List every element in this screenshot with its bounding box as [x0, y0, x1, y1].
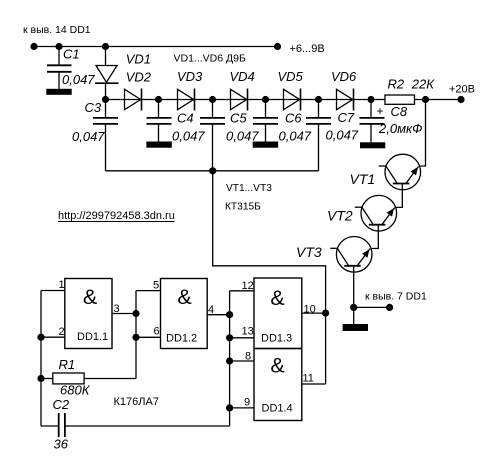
label & of DD1.1 — [83, 285, 97, 309]
transistor VT2 — [355, 195, 397, 231]
svg-text:VT2: VT2 — [327, 208, 353, 224]
pin 10 label — [304, 304, 316, 316]
ground below VT3 node — [343, 324, 368, 331]
pin 11 label — [303, 373, 314, 385]
svg-text:DD1.1: DD1.1 — [77, 331, 108, 343]
node out3/bus — [132, 310, 139, 317]
capacitor C3 — [93, 100, 118, 171]
svg-text:C6: C6 — [285, 111, 302, 126]
svg-text:0,047: 0,047 — [279, 129, 312, 144]
label VT1 — [350, 171, 376, 187]
diode VD4 — [231, 89, 248, 111]
label & of DD1.4 — [270, 354, 284, 378]
pin 2 label — [59, 326, 65, 338]
svg-text:+: + — [377, 104, 384, 118]
ground below C6 — [253, 142, 278, 148]
node C1 tap on top rail — [55, 43, 62, 50]
label C1 — [63, 47, 80, 62]
underline of link — [58, 221, 175, 223]
capacitor C5 — [200, 100, 225, 171]
svg-text:0,047: 0,047 — [72, 129, 105, 144]
svg-text:0,047: 0,047 — [62, 72, 95, 87]
svg-text:&: & — [177, 285, 191, 309]
svg-text:680К: 680К — [60, 383, 91, 398]
pin 1 label — [59, 279, 65, 291]
svg-text:КТ315Б: КТ315Б — [225, 202, 261, 213]
node junction VT3/ground — [350, 304, 357, 311]
svg-text:C4: C4 — [177, 111, 194, 126]
capacitor C1 — [47, 47, 72, 89]
pin 3 label — [114, 303, 120, 315]
wire DD1.2 output bus — [229, 291, 231, 426]
svg-text:0,047: 0,047 — [172, 129, 205, 144]
label DD1.3 — [261, 333, 292, 345]
wire diode row right of R2 — [415, 99, 462, 101]
node terminal +20В — [457, 96, 464, 103]
node pin9/bus — [226, 404, 233, 411]
svg-text:к выв. 14 DD1: к выв. 14 DD1 — [23, 24, 91, 36]
node VD1 tap on top rail — [102, 43, 109, 50]
svg-text:&: & — [270, 354, 284, 378]
value 0,047 of C5 — [226, 129, 259, 144]
wire left input bus — [40, 291, 42, 427]
label: VD1...VD6 Д9Б — [174, 53, 246, 65]
label R2 22К — [388, 77, 436, 92]
label: +6...9В — [290, 43, 325, 55]
label VD6 — [331, 69, 357, 84]
label VD1 — [126, 52, 151, 67]
label VD5 — [278, 69, 304, 84]
pin 9 label — [244, 397, 250, 409]
wire pin 2 — [41, 336, 65, 338]
svg-text:DD1.4: DD1.4 — [262, 403, 293, 415]
wire from R2 node down to VT1 emitter — [420, 100, 425, 167]
value 0,047 of C3 — [72, 129, 105, 144]
node junction VD6/R2/C8 — [367, 96, 374, 103]
diode VD5 — [284, 89, 301, 111]
node junction VD1/VD2/C3 — [102, 96, 109, 103]
svg-text:VD5: VD5 — [278, 69, 304, 84]
label & of DD1.3 — [270, 286, 284, 310]
svg-text:VT3: VT3 — [296, 244, 322, 260]
wire right bus out10 to out11 — [325, 313, 327, 384]
wire output 10 — [302, 312, 326, 314]
label R1 — [59, 357, 76, 372]
svg-text:http://299792458.3dn.ru: http://299792458.3dn.ru — [58, 210, 175, 222]
pin 13 label — [242, 326, 254, 338]
label VD3 — [177, 69, 203, 84]
transistor VT1 — [379, 154, 421, 190]
svg-text:C5: C5 — [230, 111, 247, 126]
node R1/bus — [37, 375, 44, 382]
wire output 11 — [302, 383, 326, 385]
label VT3 — [296, 244, 322, 260]
node out10 — [322, 310, 329, 317]
label C2 — [53, 397, 70, 412]
wire to pin 7 terminal — [354, 306, 390, 308]
label C3 — [85, 100, 102, 115]
label: +20В — [449, 84, 475, 96]
value 0,047 of C1 — [62, 72, 95, 87]
node terminal к выв. 7 DD1 — [386, 304, 393, 311]
svg-text:VD1: VD1 — [126, 52, 151, 67]
wire pin 9 — [230, 407, 254, 409]
wire pin 13 — [230, 337, 254, 339]
ground below C1 — [46, 89, 71, 95]
ground below C8 — [360, 142, 385, 148]
pin 12 label — [242, 280, 254, 292]
gate DD1.3 — [254, 278, 302, 349]
wire output 4 — [207, 314, 229, 316]
svg-text:VT1...VT3: VT1...VT3 — [226, 183, 272, 194]
value 0,047 of C4 — [172, 129, 205, 144]
svg-text:+6...9В: +6...9В — [290, 43, 325, 55]
label: к выв. 7 DD1 — [365, 291, 427, 303]
svg-text:&: & — [83, 285, 97, 309]
wire DD1.1 output bus — [135, 291, 137, 379]
label DD1.2 — [166, 333, 197, 345]
resistor R2 — [385, 95, 415, 104]
node junction C5 bus — [209, 167, 216, 174]
label: К176ЛА7 — [114, 396, 159, 408]
capacitor C8 (electrolytic) — [360, 100, 385, 143]
wire VT3 base lead down to output node — [353, 266, 355, 308]
value 0,047 of C6 — [279, 129, 312, 144]
node pin6/bus — [132, 334, 139, 341]
capacitor C4 — [147, 100, 172, 142]
capacitor C7 — [306, 100, 331, 171]
svg-text:VT1: VT1 — [350, 171, 376, 187]
wire node down to ground — [353, 307, 355, 324]
node out4/bus — [226, 311, 233, 318]
diode VD3 — [178, 89, 195, 111]
wire pin 8 — [230, 360, 254, 362]
node terminal +6...9В — [274, 43, 281, 50]
svg-text:VD6: VD6 — [331, 69, 357, 84]
svg-text:9: 9 — [244, 397, 250, 409]
wire VT1 base lead down to VT2 emitter — [396, 184, 402, 208]
svg-text:C3: C3 — [85, 100, 102, 115]
svg-text:22К: 22К — [411, 77, 435, 92]
svg-text:DD1.2: DD1.2 — [166, 333, 197, 345]
wire diode row left of R2 — [106, 99, 386, 101]
wire VT2 base lead down to VT3 emitter — [371, 225, 378, 249]
diode VD1 (vertical) — [95, 47, 119, 100]
node junction R2/VT1 — [422, 96, 429, 103]
svg-text:C8: C8 — [391, 104, 408, 119]
svg-text:C1: C1 — [63, 47, 80, 62]
value 36 of C2 — [54, 437, 69, 452]
label VD2 — [126, 70, 152, 85]
svg-text:C7: C7 — [338, 110, 355, 125]
capacitor C6 — [253, 100, 278, 142]
label DD1.4 — [262, 403, 293, 415]
wire top supply rail — [34, 46, 278, 48]
ground below C4 — [146, 142, 171, 148]
label & of DD1.2 — [177, 285, 191, 309]
label + C8 — [377, 104, 408, 119]
svg-text:2,0мкФ: 2,0мкФ — [378, 121, 422, 136]
capacitor C2 — [41, 413, 230, 437]
wire from bus down and right to DD1.3 output node — [213, 171, 326, 313]
node terminal left of top rail — [30, 43, 37, 50]
node junction VD3/VD4/C5 — [209, 96, 216, 103]
wire ground bus under C3/C5/C7 — [106, 170, 319, 172]
svg-text:11: 11 — [303, 373, 314, 385]
svg-text:13: 13 — [242, 326, 254, 338]
svg-text:1: 1 — [59, 279, 65, 291]
diode VD6 — [337, 89, 354, 111]
label VT2 — [327, 208, 353, 224]
node junction VD2/VD3/C4 — [155, 96, 162, 103]
value 2,0мкФ of C8 — [378, 121, 422, 136]
svg-text:C2: C2 — [53, 397, 70, 412]
wire pin 5 — [136, 290, 161, 292]
wire output 3 — [112, 313, 136, 315]
value 0,047 of C7 — [326, 128, 359, 143]
svg-text:36: 36 — [54, 437, 69, 452]
transistor VT3 — [330, 237, 372, 273]
pin 6 label — [154, 326, 160, 338]
svg-text:R2: R2 — [388, 77, 405, 92]
label VD4 — [230, 69, 255, 84]
svg-text:+20В: +20В — [449, 84, 475, 96]
gate DD1.4 — [254, 349, 302, 421]
node pin2/bus — [37, 334, 44, 341]
svg-text:5: 5 — [153, 280, 159, 292]
wire pin 1 — [41, 290, 65, 292]
wire pin 6 — [136, 336, 161, 338]
node pin8/bus — [226, 357, 233, 364]
label: к выв. 14 DD1 — [23, 24, 91, 36]
svg-text:0,047: 0,047 — [226, 129, 259, 144]
svg-text:2: 2 — [59, 326, 65, 338]
svg-text:R1: R1 — [59, 357, 76, 372]
label: http://299792458.3dn.ru — [58, 210, 175, 222]
svg-text:VD2: VD2 — [126, 70, 152, 85]
svg-text:К176ЛА7: К176ЛА7 — [114, 396, 159, 408]
label C6 — [285, 111, 302, 126]
svg-text:0,047: 0,047 — [326, 128, 359, 143]
label C5 — [230, 111, 247, 126]
svg-text:VD4: VD4 — [230, 69, 255, 84]
svg-text:VD3: VD3 — [177, 69, 203, 84]
node junction VD4/VD5/C6 — [262, 96, 269, 103]
pin 5 label — [153, 280, 159, 292]
svg-text:DD1.3: DD1.3 — [261, 333, 292, 345]
diode VD2 (horizontal) — [125, 89, 142, 111]
label C7 — [338, 110, 355, 125]
pin 8 label — [245, 351, 251, 363]
pin 4 label — [208, 304, 214, 316]
svg-text:&: & — [270, 286, 284, 310]
gate DD1.1 — [65, 279, 112, 349]
resistor R1 — [41, 373, 136, 384]
node pin13/bus — [226, 334, 233, 341]
label C4 — [177, 111, 194, 126]
svg-text:6: 6 — [154, 326, 160, 338]
node junction VD5/VD6/C7 — [315, 96, 322, 103]
gate DD1.2 — [161, 279, 208, 349]
svg-text:к выв. 7 DD1: к выв. 7 DD1 — [365, 291, 427, 303]
label: КТ315Б — [225, 202, 261, 213]
value 680К of R1 — [60, 383, 91, 398]
label DD1.1 — [77, 331, 108, 343]
wire pin 12 — [230, 290, 254, 292]
svg-text:VD1...VD6 Д9Б: VD1...VD6 Д9Б — [174, 53, 246, 65]
label: VT1...VT3 — [226, 183, 272, 194]
